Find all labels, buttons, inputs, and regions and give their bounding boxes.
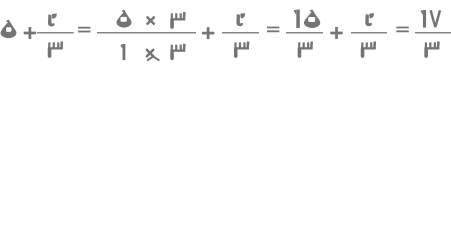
fraction F denominator digit 3 [425, 42, 440, 56]
fraction F numerator digit 1 [421, 10, 426, 28]
equals sign 3 [396, 27, 408, 33]
fraction A numerator digit 2 [48, 14, 57, 27]
fraction D numerator digit 1 [294, 10, 300, 29]
fraction B denominator digit 1 [121, 44, 126, 60]
fraction A denominator digit 3 [48, 42, 63, 56]
equals sign 1 [78, 27, 90, 33]
fraction E denominator digit 3 [361, 42, 376, 56]
fraction B bar [97, 32, 196, 33]
fraction F numerator digit 7 [429, 10, 441, 27]
inline digit 5 [1, 20, 17, 38]
fraction B denominator arch [148, 57, 159, 61]
fraction B numerator digit 3 stem top [183, 12, 186, 15]
fraction D denominator digit 3 [298, 42, 313, 56]
fraction C numerator digit 2 [236, 13, 245, 26]
fraction B denominator multiply [147, 50, 153, 56]
fraction D bar [286, 32, 323, 33]
fraction B numerator digit 5 [117, 10, 132, 28]
fraction B numerator digit 3 [171, 13, 186, 27]
equals sign 2 [267, 27, 279, 33]
fraction E numerator digit 2 [365, 13, 374, 26]
fraction D numerator digit 5 [304, 10, 320, 28]
fraction B denominator digit 3 [171, 44, 186, 58]
plus sign 1 [24, 27, 36, 39]
fraction B numerator multiply [147, 17, 153, 23]
fraction C bar [222, 32, 259, 33]
fraction F bar [415, 32, 451, 33]
fraction A bar [37, 32, 74, 33]
fraction E bar [351, 32, 387, 33]
plus sign 3 [330, 27, 342, 39]
plus sign 2 [202, 27, 214, 39]
fraction C denominator digit 3 [234, 42, 249, 56]
